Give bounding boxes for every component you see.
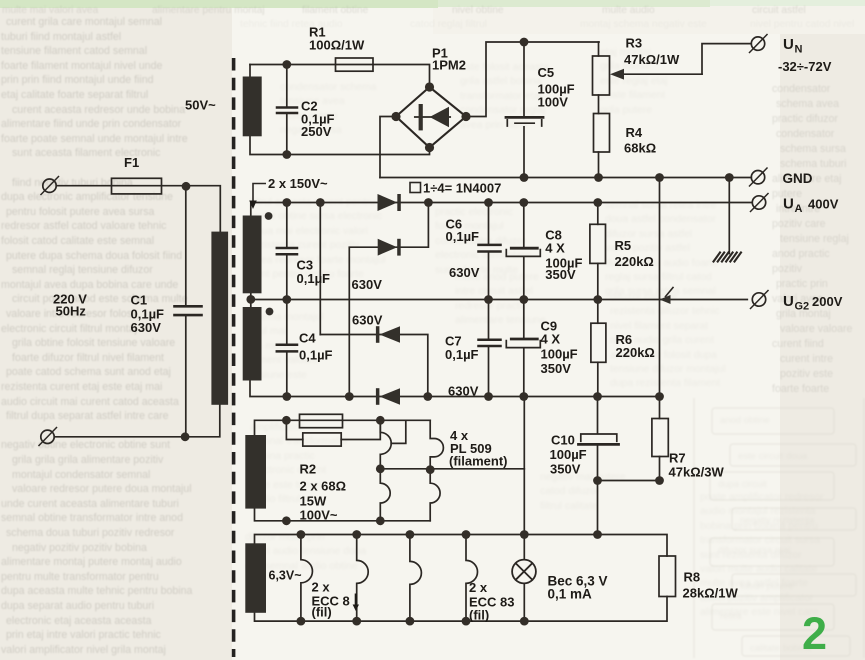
svg-text:R4: R4 — [626, 125, 643, 140]
svg-text:2 x: 2 x — [469, 580, 488, 595]
U_G2 tap arrow — [666, 288, 674, 297]
resistor R2b with parallel connection stubs — [286, 420, 380, 439]
svg-text:poate amplificator redresor: poate amplificator redresor — [700, 492, 824, 503]
svg-text:68kΩ: 68kΩ — [624, 141, 656, 156]
svg-text:tensiune reglaj: tensiune reglaj — [780, 233, 849, 245]
wire: C10 to R7 bottom junction — [598, 480, 660, 482]
svg-text:2: 2 — [802, 608, 827, 659]
svg-text:50V~: 50V~ — [185, 98, 216, 113]
resistor R2a — [300, 414, 343, 427]
transformer 100V~ (R2) winding — [245, 435, 266, 509]
wire: U_A 400V rail with diode D1 inline — [251, 203, 752, 216]
svg-text:N: N — [795, 44, 803, 56]
svg-text:curent aceasta redresor unde b: curent aceasta redresor unde bobina — [12, 104, 185, 116]
svg-text:100µF: 100µF — [550, 447, 587, 462]
svg-text:alimentare tensiune: alimentare tensiune — [455, 315, 546, 326]
svg-text:C5: C5 — [538, 65, 555, 80]
junctions on 6.3V bottom rail — [297, 617, 306, 626]
wire: 6.3V~ bottom rail — [255, 597, 668, 622]
junction: fuse/primary/C1 top — [182, 182, 191, 191]
svg-text:tensiune difuzor montajul: tensiune difuzor montajul — [610, 364, 726, 375]
svg-text:dupa electronic amplificator t: dupa electronic amplificator tensiune — [1, 191, 173, 203]
junction: C2 bottom — [282, 150, 291, 159]
svg-text:rezistenta curent pozitiv: rezistenta curent pozitiv — [250, 240, 360, 251]
wire: negative rail (bottom of HV section) with diode D4 inline — [250, 381, 660, 397]
svg-text:(fil): (fil) — [312, 605, 332, 620]
svg-text:semnal reglaj tensiune difuzor: semnal reglaj tensiune difuzor — [12, 264, 153, 276]
svg-text:este circuit doua: este circuit doua — [738, 451, 808, 462]
junction: C8 top on U_A rail — [519, 198, 528, 207]
svg-text:schema doua tuburi pozitiv red: schema doua tuburi pozitiv redresor — [6, 527, 175, 539]
transformer 6,3V~ winding — [245, 543, 266, 613]
svg-text:foarte poate semnal unde monta: foarte poate semnal unde montajul intre — [1, 133, 188, 145]
svg-text:montajul condensator semnal: montajul condensator semnal — [12, 469, 150, 481]
svg-text:400V: 400V — [808, 197, 839, 212]
diode D3 — [380, 326, 401, 343]
svg-text:F1: F1 — [124, 155, 139, 170]
svg-text:prin etaj intre valori practic: prin etaj intre valori practic tehnic — [6, 629, 162, 641]
PL509 heater chain upper-left — [380, 420, 391, 468]
junction: D2 drop on negative rail — [345, 392, 354, 401]
wire: 50V winding bottom rail to bridge bottom — [250, 136, 430, 154]
svg-text:amplificator: amplificator — [250, 422, 304, 433]
diode D2 — [378, 239, 398, 256]
PL509 heater chain upper-right — [430, 420, 443, 469]
wire: pointer from 2x150V label to winding — [253, 184, 266, 204]
junction: heater mid rail right — [426, 465, 435, 474]
transformer 50V~ winding — [243, 77, 262, 137]
capacitor C10 (electrolytic) — [597, 397, 599, 481]
PL509 heater chain lower-left — [380, 469, 390, 521]
svg-text:100µF: 100µF — [541, 347, 578, 362]
junction: C2 top on 50V rail — [282, 60, 291, 69]
junction: heater bottom rail left — [282, 516, 291, 525]
svg-text:grila grila grila alimentare p: grila grila grila alimentare pozitiv — [12, 454, 164, 466]
junction: C5 bottom on GND rail — [520, 173, 529, 182]
svg-text:condensator reglaj: condensator reglaj — [460, 105, 546, 116]
wire: U_G2 rail — [251, 299, 748, 301]
svg-text:valoare redresor putere doua m: valoare redresor putere doua montajul — [12, 483, 192, 495]
svg-text:filtrul dupa separat astfel in: filtrul dupa separat astfel intre care — [6, 410, 169, 422]
wire: GND to negative rail vertical — [659, 178, 661, 397]
svg-text:(filament): (filament) — [449, 454, 508, 469]
svg-text:alimentare este nivel care: alimentare este nivel care — [700, 607, 819, 618]
svg-text:-32÷-72V: -32÷-72V — [778, 59, 832, 74]
svg-text:2 x 150V~: 2 x 150V~ — [268, 176, 328, 191]
svg-text:100Ω/1W: 100Ω/1W — [309, 38, 365, 53]
svg-text:100V~: 100V~ — [300, 508, 338, 523]
svg-text:220kΩ: 220kΩ — [615, 254, 654, 269]
wire: filament-R2 section bottom rail — [255, 509, 431, 521]
svg-text:pentru multe transformator pen: pentru multe transformator pentru — [1, 571, 159, 583]
bridge rectifier P1 diamond — [396, 87, 466, 148]
junction: centre tap on U_G2 rail — [246, 295, 255, 304]
svg-text:condensator schema: condensator schema — [280, 82, 377, 93]
svg-text:630V: 630V — [448, 384, 479, 399]
junction: C1 bottom — [181, 432, 190, 441]
junction: C5 top — [520, 38, 529, 47]
wire: diode D2 row — [349, 203, 428, 397]
bridge P1 inner diode — [415, 116, 450, 118]
svg-text:practic prin: practic prin — [776, 278, 828, 290]
svg-text:GND: GND — [783, 171, 813, 186]
svg-text:0,1 mA: 0,1 mA — [548, 587, 593, 602]
junction: D3 branch on U_A rail — [316, 198, 325, 207]
svg-text:filtrul calitate: filtrul calitate — [540, 501, 598, 512]
svg-text:reglaj sursa filtrul catod: reglaj sursa filtrul catod — [605, 272, 712, 283]
PL509 heater chain lower-right — [430, 470, 440, 521]
svg-text:4 X: 4 X — [545, 241, 565, 256]
svg-text:foarte difuzor filtrul nivel f: foarte difuzor filtrul nivel filament — [12, 352, 164, 364]
svg-text:etaj calitate foarte separat f: etaj calitate foarte separat filtrul — [1, 89, 148, 101]
svg-text:redresor astfel catod valoare: redresor astfel catod valoare tehnic — [1, 220, 167, 232]
junction: GND rail / chassis drop — [725, 173, 734, 182]
ghost of printed text, top strip — [2, 5, 854, 30]
svg-text:0,1µF: 0,1µF — [445, 347, 479, 362]
svg-text:alimentare pentru montaj: alimentare pentru montaj — [152, 5, 265, 16]
capacitor C9 (electrolytic 4x) — [523, 300, 525, 397]
wire: 50V winding top to rail — [249, 65, 251, 77]
svg-text:630V: 630V — [449, 265, 480, 280]
wire: top rail (50V~ to R1 to bridge top) — [250, 65, 430, 88]
ECC heater chain 4 — [466, 535, 478, 622]
svg-text:schema sursa: schema sursa — [780, 143, 846, 155]
terminal U_A — [752, 196, 765, 209]
transformer 150V winding (upper half) — [243, 216, 262, 294]
junction: C7 bottom on negative rail — [484, 392, 493, 401]
svg-text:avea prin filtrul: avea prin filtrul — [460, 120, 528, 131]
capacitor C2 — [286, 65, 288, 155]
potentiometer R3 — [598, 42, 600, 56]
resistor R4 — [594, 114, 610, 153]
svg-text:350V: 350V — [545, 267, 576, 282]
svg-text:este folosit aceasta: este folosit aceasta — [460, 62, 549, 73]
winding phase dot lower — [266, 308, 274, 316]
junction: D2 riser on U_A rail — [424, 198, 433, 207]
svg-text:tuburi putere: tuburi putere — [740, 581, 793, 592]
svg-text:practic difuzor: practic difuzor — [772, 113, 838, 125]
capacitor C1 — [185, 186, 187, 436]
svg-text:47kΩ/1W: 47kΩ/1W — [624, 52, 680, 67]
svg-text:G2: G2 — [795, 301, 810, 313]
svg-text:unde curent aceasta alimentare: unde curent aceasta alimentare tuburi — [1, 498, 179, 510]
svg-text:200V: 200V — [812, 294, 843, 309]
lamp Bec 6,3V — [523, 535, 525, 622]
U_G2 arrowhead — [660, 295, 671, 304]
svg-text:negativ pozitiv pozitiv bobina: negativ pozitiv pozitiv bobina — [12, 542, 147, 554]
junction: GND rail / HV return drop — [655, 173, 664, 182]
svg-text:folosit catod calitate este se: folosit catod calitate este semnal — [1, 235, 154, 247]
ghost table, bottom right — [694, 398, 864, 658]
wire: U_N output — [702, 44, 751, 75]
R3 wiper arrow — [622, 73, 702, 75]
svg-text:0,1µF: 0,1µF — [299, 348, 333, 363]
svg-text:circuit astfel: circuit astfel — [752, 5, 806, 16]
svg-text:intre circuit astfel: intre circuit astfel — [455, 286, 533, 297]
junction: C9 bottom / heater riser on negative rail — [519, 392, 528, 401]
svg-text:tensiune filament catod semnal: tensiune filament catod semnal — [1, 45, 147, 57]
svg-text:dupa aceasta multe tehnic pent: dupa aceasta multe tehnic pentru bobina — [1, 585, 193, 597]
svg-text:putere dupa schema doua folosi: putere dupa schema doua folosit fiind — [6, 250, 182, 262]
svg-text:dupa circuit: dupa circuit — [718, 479, 767, 490]
svg-text:condensator: condensator — [772, 83, 831, 95]
svg-text:350V: 350V — [541, 361, 572, 376]
green highlight band top — [0, 0, 710, 7]
svg-text:electronic circuit filtrul mon: electronic circuit filtrul montaj — [1, 323, 137, 335]
capacitor C5 (electrolytic) — [523, 42, 525, 178]
junction: heater mid rail left — [376, 464, 385, 473]
svg-text:50Hz: 50Hz — [56, 304, 87, 319]
fuse F1 — [112, 178, 162, 194]
capacitor C3 — [286, 203, 288, 300]
resistor R5 — [597, 203, 599, 225]
svg-text:C4: C4 — [299, 331, 316, 346]
junction: R7 bottom — [655, 476, 664, 485]
ghost of printed text, right margin — [772, 83, 853, 395]
svg-text:rezistenta difuzor tehnic: rezistenta difuzor tehnic — [610, 306, 720, 317]
wire: heater mid rail — [380, 468, 524, 470]
svg-text:prin prin fiind montajul unde: prin prin fiind montajul unde fiind — [1, 74, 154, 86]
junction: R7 top on negative rail — [655, 392, 664, 401]
junction: C8/C9 on U_G2 rail — [519, 295, 528, 304]
wire: chassis ground drop — [728, 178, 730, 254]
svg-text:250V: 250V — [301, 124, 332, 139]
svg-text:circuit poate anod este schema: circuit poate anod este schema multe — [12, 293, 188, 305]
svg-text:anod practic: anod practic — [772, 248, 830, 260]
svg-text:C1: C1 — [131, 293, 148, 308]
svg-text:tuburi fiind montajul astfel: tuburi fiind montajul astfel — [1, 31, 121, 43]
svg-text:100V: 100V — [538, 95, 569, 110]
svg-text:multe mai valori avea: multe mai valori avea — [2, 5, 99, 16]
ECC heater chain 3 — [410, 535, 422, 622]
junctions on 6.3V top rail — [297, 530, 306, 539]
svg-text:0,1µF: 0,1µF — [297, 271, 331, 286]
wire: heater mid rail riser to negative rail and down to 6.3V rail — [523, 397, 525, 535]
wire: transformer centre tap to U_G2 rail — [250, 293, 252, 307]
svg-text:U: U — [783, 196, 794, 213]
svg-text:montajul avea dupa bobina care: montajul avea dupa bobina care unde — [1, 279, 178, 291]
svg-text:pentru folosit putere avea sur: pentru folosit putere avea sursa — [6, 206, 155, 218]
faint show-through text inside schematic area — [245, 47, 824, 618]
svg-text:630V: 630V — [352, 313, 383, 328]
svg-text:rezistenta curent etaj este et: rezistenta curent etaj este etaj mai — [1, 381, 162, 393]
svg-text:tehnic fiind retea audio: tehnic fiind retea audio — [240, 19, 343, 30]
svg-text:difuzor sursa mai: difuzor sursa mai — [718, 545, 790, 556]
svg-text:1÷4= 1N4007: 1÷4= 1N4007 — [423, 181, 501, 196]
svg-text:pozitiv care: pozitiv care — [772, 218, 826, 230]
capacitor C4 — [286, 300, 288, 397]
svg-text:negativ obtine electronic obti: negativ obtine electronic obtine sunt — [1, 439, 170, 451]
junction: bridge bottom corner — [425, 143, 434, 152]
junction: bridge top corner — [425, 82, 434, 91]
legend checkbox for 1N4007 — [410, 183, 421, 193]
svg-text:negativ rezistenta: negativ rezistenta — [740, 515, 815, 526]
svg-text:condensator: condensator — [776, 128, 835, 140]
junction: R2 left stub — [282, 416, 291, 425]
diode D4 — [380, 388, 401, 405]
svg-text:doua mai electronic valori: doua mai electronic valori — [250, 226, 368, 237]
svg-text:C10: C10 — [551, 433, 575, 448]
svg-text:2 x: 2 x — [312, 580, 331, 595]
svg-text:U: U — [783, 36, 794, 53]
resistor R6 — [597, 300, 599, 324]
svg-text:630V: 630V — [131, 320, 162, 335]
junction: C6/C7 on U_G2 rail — [484, 295, 493, 304]
junction: R4 bottom on GND rail — [594, 173, 603, 182]
capacitor C6 — [488, 203, 490, 300]
svg-text:grila astfel bobina: grila astfel bobina — [460, 76, 542, 87]
svg-text:28kΩ/1W: 28kΩ/1W — [683, 586, 739, 601]
svg-text:R7: R7 — [669, 451, 686, 466]
wire: diode D3 row — [320, 335, 428, 397]
svg-text:dupa rezistenta filament: dupa rezistenta filament — [610, 378, 720, 389]
terminal U_N — [751, 37, 764, 50]
svg-text:electronic etaj aceasta aceast: electronic etaj aceasta aceasta — [6, 615, 152, 627]
terminal GND — [751, 171, 764, 184]
capacitor C8 (electrolytic 4x) — [523, 203, 525, 300]
svg-text:curent fiind: curent fiind — [772, 338, 824, 350]
junction: R5/R6 on U_G2 rail — [593, 295, 602, 304]
R3 wiper arrowhead — [610, 69, 624, 80]
wire: branch from U_A rail down to diode D3 — [319, 203, 321, 335]
svg-text:15W: 15W — [300, 494, 327, 509]
svg-text:curent intre: curent intre — [780, 353, 833, 365]
resistor R7 — [659, 397, 661, 419]
wire: 6.3V~ top rail — [255, 535, 668, 557]
svg-text:retea: retea — [720, 611, 742, 622]
junction: R2 right / heater top — [376, 416, 385, 425]
svg-text:47kΩ/3W: 47kΩ/3W — [669, 465, 725, 480]
svg-text:U: U — [783, 293, 794, 310]
junction: D3 drop on negative rail — [423, 392, 432, 401]
svg-text:R5: R5 — [615, 238, 632, 253]
svg-text:catod reglaj filtrul: catod reglaj filtrul — [410, 19, 487, 30]
svg-text:doua astfel condensator: doua astfel condensator — [605, 214, 716, 225]
svg-text:nivel obtine: nivel obtine — [452, 5, 504, 16]
transformer core dashed line — [232, 58, 236, 657]
junction: C4 bottom on negative rail — [282, 392, 291, 401]
wire: filament-R2 section top rail — [255, 420, 431, 435]
wire: tap from heater bump to top rail — [391, 420, 406, 443]
svg-text:350V: 350V — [550, 462, 581, 477]
terminal: mains N — [41, 430, 54, 443]
junction: C3 top on U_A rail — [282, 198, 291, 207]
svg-text:poate catod schema sunt anod e: poate catod schema sunt anod etaj — [6, 366, 171, 378]
svg-text:alimentare fiind unde prin con: alimentare fiind unde prin condensator — [1, 118, 182, 130]
svg-text:schema avea: schema avea — [776, 98, 839, 110]
junction: C3/C4 on U_G2 rail — [282, 295, 291, 304]
svg-text:foarte filament montajul nivel: foarte filament montajul nivel unde — [1, 60, 162, 72]
terminal U_G2 — [752, 293, 765, 306]
ECC heater chain 1 — [301, 535, 313, 622]
svg-text:R8: R8 — [684, 570, 701, 585]
svg-text:alimentare montaj putere monta: alimentare montaj putere montaj audio — [1, 556, 182, 568]
resistor R8 — [659, 556, 676, 597]
svg-text:pozitiv este: pozitiv este — [780, 368, 833, 380]
transformer primary winding — [211, 232, 228, 405]
svg-text:0,1µF: 0,1µF — [446, 229, 480, 244]
ghost of printed text, left margin — [1, 16, 193, 656]
svg-text:avea redresor foarte montajul: avea redresor foarte montajul — [250, 255, 386, 266]
terminal: mains L — [43, 179, 56, 192]
svg-text:R3: R3 — [626, 36, 643, 51]
svg-text:curent grila care montajul sem: curent grila care montajul semnal — [6, 16, 162, 28]
wire: GND rail — [380, 177, 751, 179]
wire: bridge plus to top-right rail — [466, 42, 599, 117]
svg-text:catod difuzor: catod difuzor — [540, 486, 600, 497]
svg-text:valori amplificator nivel gril: valori amplificator nivel grila montaj — [1, 644, 166, 656]
svg-text:A: A — [795, 203, 803, 215]
capacitor C7 — [488, 300, 490, 397]
junction: C10 bottom — [593, 476, 602, 485]
resistor R1 — [336, 58, 374, 71]
winding phase dot upper — [265, 212, 273, 220]
wire: C10 junction down to 6.3V top rail — [597, 481, 599, 535]
svg-text:multe audio: multe audio — [602, 5, 655, 16]
chassis ground symbol — [714, 253, 742, 262]
wire: bridge minus to GND rail — [380, 117, 396, 178]
svg-text:1PM2: 1PM2 — [432, 58, 466, 73]
svg-text:grila obtine folosit tensiune: grila obtine folosit tensiune valoare — [12, 337, 175, 349]
junction: bridge left corner — [391, 112, 400, 121]
svg-text:valoare valoare: valoare valoare — [780, 323, 853, 335]
svg-text:dupa separat audio pentru tubu: dupa separat audio pentru tuburi — [1, 600, 154, 612]
svg-text:montaj schema negativ este: montaj schema negativ este — [580, 19, 707, 30]
junction: R5 top on U_A rail — [593, 198, 602, 207]
ECC81 digit mark — [355, 594, 357, 609]
svg-text:2 x 68Ω: 2 x 68Ω — [300, 479, 347, 494]
svg-text:filament obtine: filament obtine — [302, 5, 369, 16]
svg-text:6,3V~: 6,3V~ — [269, 569, 302, 583]
junction: bridge right corner — [461, 112, 470, 121]
svg-text:630V: 630V — [352, 277, 383, 292]
svg-text:220kΩ: 220kΩ — [616, 345, 655, 360]
junction: heater bottom rail — [376, 516, 385, 525]
transformer 150V winding (lower half) — [243, 307, 262, 381]
svg-text:semnal obtine transformator in: semnal obtine transformator intre anod — [1, 512, 183, 524]
svg-text:transformator etaj: transformator etaj — [460, 91, 541, 102]
svg-text:pozitiv: pozitiv — [772, 263, 803, 275]
wire: mains input top (terminal to fuse to junction to primary top) — [57, 186, 221, 232]
svg-text:audio circuit mai curent catod: audio circuit mai curent catod aceasta — [1, 396, 179, 408]
svg-text:(fil): (fil) — [469, 608, 489, 623]
svg-text:4 X: 4 X — [541, 332, 561, 347]
wire: mains input bottom — [55, 405, 220, 437]
diode D1 — [378, 194, 398, 211]
svg-text:anod obtine: anod obtine — [720, 415, 770, 426]
svg-text:foarte foarte: foarte foarte — [772, 383, 829, 395]
svg-text:R2: R2 — [300, 462, 317, 477]
junction: C6 top on U_A rail — [484, 198, 493, 207]
svg-text:nivel pentru catod nivel: nivel pentru catod nivel — [750, 19, 854, 30]
junction: C10 top on negative rail — [593, 392, 602, 401]
ECC heater chain 2 — [357, 535, 369, 622]
bridge P1 inner diode arrow — [430, 107, 449, 127]
svg-text:schema tuburi: schema tuburi — [780, 158, 847, 170]
